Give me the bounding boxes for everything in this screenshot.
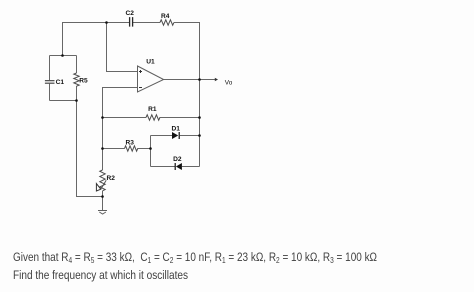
wire R2 bottom to ground node <box>102 191 104 197</box>
svg-text:R3: R3 <box>125 140 134 147</box>
svg-text:R5: R5 <box>79 77 88 84</box>
wire C1R5 block bottom <box>50 100 77 102</box>
wire diode box left vertical <box>150 136 152 167</box>
wire ground stem <box>102 197 104 211</box>
svg-text:C1: C1 <box>56 79 65 86</box>
junction R1 right <box>198 116 201 119</box>
junction top wire to noninverting branch <box>105 21 108 24</box>
capacitor C2 <box>130 17 133 27</box>
junction output right rail <box>198 78 201 81</box>
node Vo output arrow <box>215 78 218 82</box>
svg-text:U1: U1 <box>146 59 155 66</box>
wire left drop from block bottom to ground node <box>77 86 104 197</box>
junction R3 left <box>101 147 104 150</box>
junction ground node <box>101 195 104 198</box>
op-amp U1 <box>138 66 164 92</box>
junction block top <box>61 54 64 57</box>
wire R5 branch top <box>76 56 78 74</box>
wire top from C1R5 block up and right to C2 <box>63 23 130 56</box>
wire C1R5 block top <box>50 55 77 57</box>
resistor R4 <box>160 20 174 25</box>
diode D2 <box>175 163 182 170</box>
potentiometer R2 <box>96 170 106 191</box>
resistor R5 <box>74 73 79 86</box>
wire R4 right to top-right corner then down right rail <box>174 23 200 167</box>
wire op-amp output to Vo arrow <box>164 79 216 81</box>
wire C1 branch <box>49 56 51 101</box>
wire R3 row left segment <box>103 148 125 150</box>
capacitor C1 <box>45 81 55 84</box>
wire R3 row right segment to diode box <box>138 148 151 150</box>
wire R1 row left segment <box>103 117 146 119</box>
resistor R1 <box>146 115 160 120</box>
svg-text:R4: R4 <box>161 13 170 20</box>
svg-text:Vo: Vo <box>225 80 233 87</box>
wire C2 right to R4 left <box>133 22 160 24</box>
caption line 2 <box>13 268 188 282</box>
junction D1 right <box>198 134 201 137</box>
junction block bottom <box>75 99 78 102</box>
svg-text:D1: D1 <box>171 125 180 132</box>
wire D2 row <box>151 166 200 168</box>
junction R1 left <box>101 116 104 119</box>
junction R3 right <box>149 147 152 150</box>
svg-text:R1: R1 <box>148 106 157 113</box>
wire R1 row right segment <box>160 117 200 119</box>
diode D1 <box>172 132 179 139</box>
svg-text:D2: D2 <box>173 156 182 163</box>
caption line 1 <box>13 250 377 264</box>
svg-text:R2: R2 <box>107 175 116 182</box>
resistor R3 <box>125 146 138 151</box>
ground <box>98 211 107 215</box>
wire inverting input from op-amp left and down the left rail <box>103 88 138 171</box>
wire noninverting input branch from top junction down to op-amp <box>107 23 138 72</box>
wire D1 row <box>151 135 200 137</box>
svg-text:C2: C2 <box>125 10 134 17</box>
